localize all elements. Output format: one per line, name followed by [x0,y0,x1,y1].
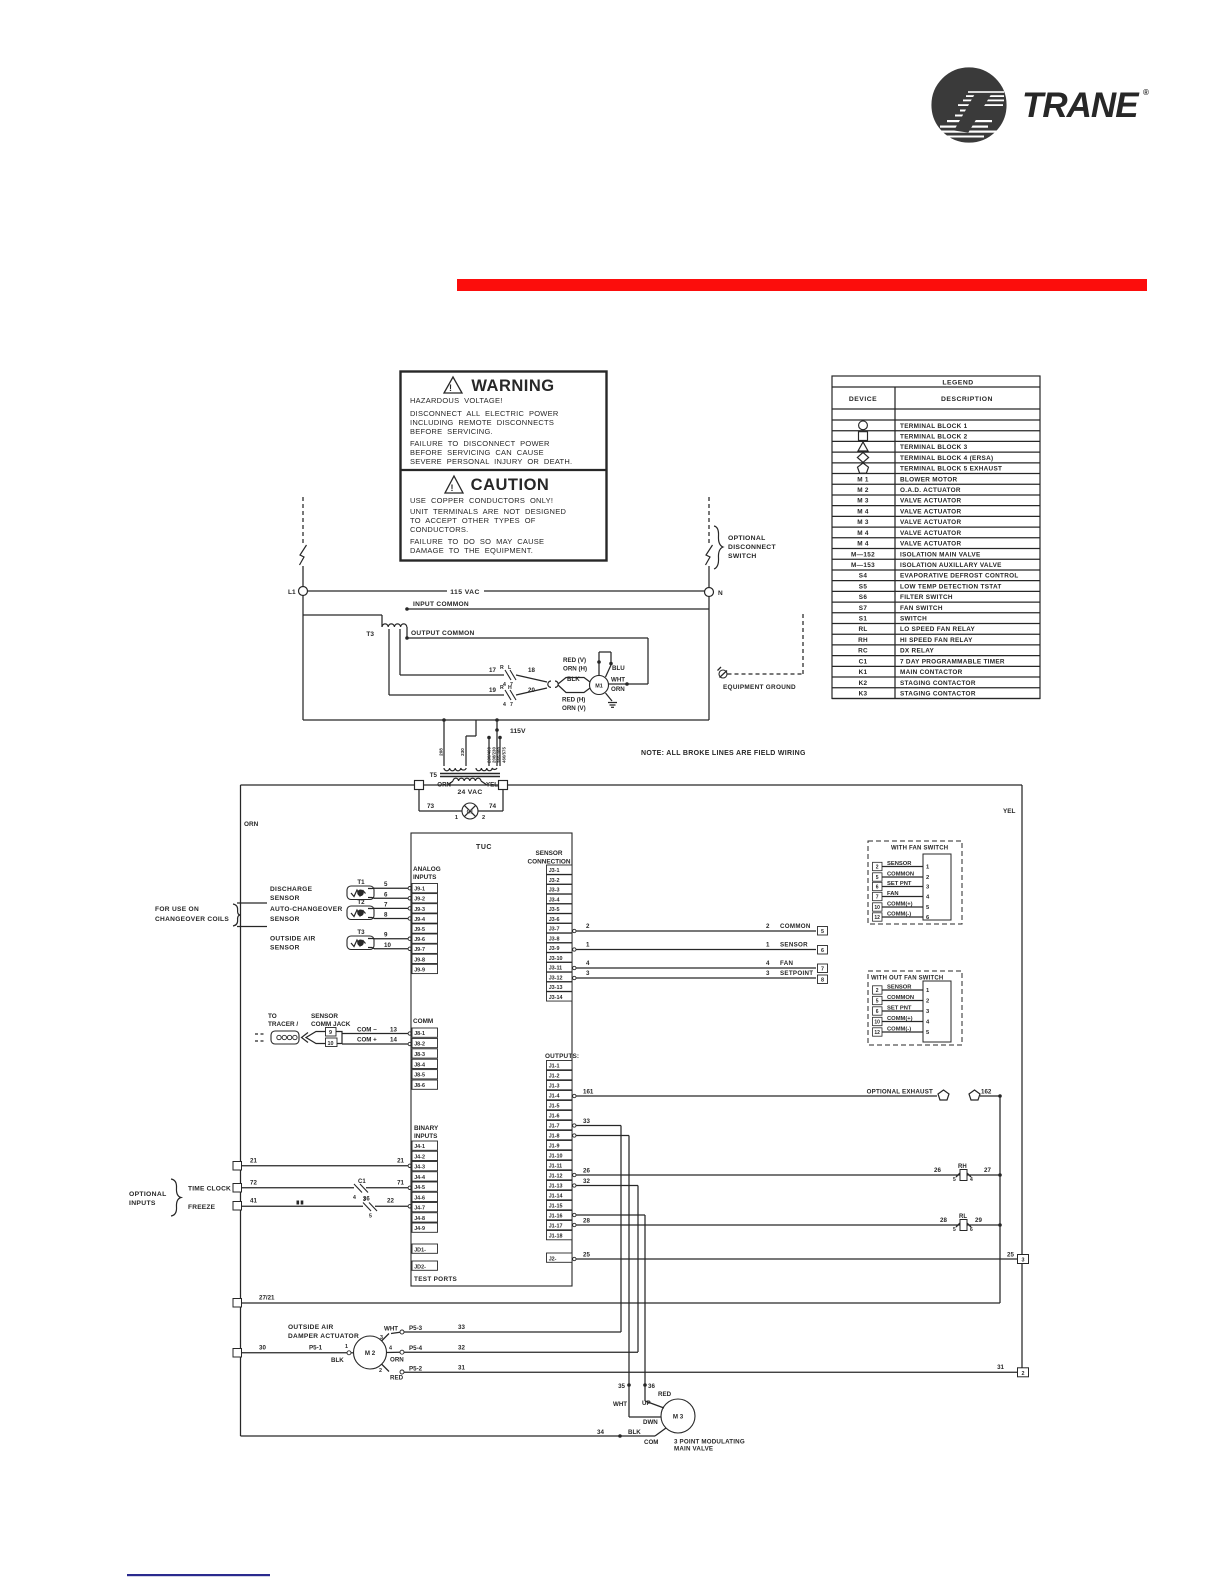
svg-text:P5-2: P5-2 [409,1365,423,1372]
svg-text:6: 6 [876,1009,879,1015]
svg-text:3: 3 [380,1335,383,1341]
svg-text:32: 32 [583,1178,590,1185]
terminal block 7 on FAN wire [818,964,828,973]
svg-text:EQUIPMENT GROUND: EQUIPMENT GROUND [723,684,796,691]
wires T1 to analog inputs [374,881,411,900]
wire 25 from J2 to terminal 3 [573,1252,1018,1261]
svg-text:32: 32 [458,1345,465,1352]
temperature sensor T3 [347,929,375,950]
svg-text:J3-5: J3-5 [549,907,560,913]
svg-text:L1: L1 [288,589,296,596]
wire 30 to damper motor [242,1344,354,1364]
contact R-H 19/20 [489,685,547,708]
svg-text:M 2: M 2 [857,487,869,494]
svg-text:5: 5 [821,929,824,935]
svg-text:M 3: M 3 [673,1414,684,1421]
svg-text:FAILURE TO DO SO MAY CAUSE: FAILURE TO DO SO MAY CAUSE [410,537,544,546]
valve label [674,1439,745,1453]
wire 28 from J1-17 to RL relay [573,1217,960,1227]
svg-text:STAGING CONTACTOR: STAGING CONTACTOR [900,680,976,687]
M1 right lead WHT ORN [609,677,629,694]
svg-text:28: 28 [583,1218,590,1225]
terminal block 6 on SENSOR wire [818,946,828,955]
svg-text:5: 5 [369,1214,372,1220]
terminal block 5 pentagon right [969,1090,980,1100]
svg-text:J4-6: J4-6 [414,1195,425,1201]
svg-text:WITH FAN SWITCH: WITH FAN SWITCH [891,846,948,852]
svg-text:FREEZE: FREEZE [188,1204,216,1211]
Trane logo wordmark [1022,86,1149,125]
svg-text:J3-9: J3-9 [549,946,560,952]
temperature sensor T1 [347,879,375,900]
svg-text:RH: RH [858,637,868,644]
svg-text:J1-10: J1-10 [549,1154,563,1160]
terminal column J8 comm [412,1028,438,1089]
svg-text:JD1-: JD1- [414,1247,426,1253]
svg-text:BLK: BLK [628,1429,641,1436]
svg-text:FAN SWITCH: FAN SWITCH [900,605,943,612]
svg-text:COMM(+): COMM(+) [887,1016,913,1022]
wire 27 RH to bus [967,1167,1002,1177]
M2 pin3 WHT wire 33 [380,1324,621,1341]
svg-text:J1-6: J1-6 [549,1114,560,1120]
svg-text:31: 31 [458,1365,465,1372]
svg-text:8: 8 [821,978,824,984]
svg-text:J1-4: J1-4 [549,1094,560,1100]
terminal 2 right side [1018,1368,1029,1377]
svg-text:JD2-: JD2- [414,1264,426,1270]
svg-text:J8-5: J8-5 [414,1073,425,1079]
wire 32 from J1-13 [573,1178,638,1352]
wire 22 to J4-7 [375,1198,411,1209]
svg-text:C1: C1 [358,1179,366,1185]
svg-text:COMM(-): COMM(-) [887,1027,911,1033]
outside air damper actuator label [288,1324,359,1340]
svg-text:SWITCH: SWITCH [900,616,927,623]
modulating valve motor M3 [661,1399,695,1433]
svg-text:J9-8: J9-8 [414,957,425,963]
svg-text:VALVE ACTUATOR: VALVE ACTUATOR [900,508,961,515]
wire COMMON from J3 [573,923,816,933]
svg-text:R: R [500,685,504,691]
svg-text:4: 4 [389,1346,392,1352]
svg-text:SEVERE PERSONAL INJURY OR DEAT: SEVERE PERSONAL INJURY OR DEATH. [410,457,572,466]
svg-text:COM +: COM + [357,1037,377,1044]
svg-text:J8-4: J8-4 [414,1062,425,1068]
svg-text:6: 6 [384,891,388,898]
wire from J1-16 to valve UP [573,1213,645,1385]
svg-text:R: R [500,665,504,671]
svg-text:J4-4: J4-4 [414,1175,425,1181]
svg-text:2: 2 [766,923,770,930]
svg-text:ANALOG: ANALOG [413,866,441,873]
svg-text:5: 5 [384,881,388,888]
svg-text:9: 9 [329,1030,332,1036]
svg-text:29: 29 [975,1217,982,1224]
svg-text:J1-13: J1-13 [549,1184,563,1190]
svg-text:J3-6: J3-6 [549,917,560,923]
svg-text:J1-14: J1-14 [549,1194,563,1200]
svg-text:J4-8: J4-8 [414,1216,425,1222]
svg-text:COMMON: COMMON [887,872,914,878]
transformer T3 autotransformer coil [366,624,407,638]
svg-text:DISCONNECT: DISCONNECT [728,544,776,551]
svg-text:N: N [718,590,723,597]
svg-text:36: 36 [363,1197,370,1203]
svg-text:6: 6 [876,885,879,891]
wire WHT to valve DWN [613,1385,662,1426]
footer rule [127,1574,270,1576]
svg-text:J1-5: J1-5 [549,1104,560,1110]
svg-text:TEST PORTS: TEST PORTS [414,1276,458,1283]
relay RH coil [953,1164,973,1183]
svg-text:18: 18 [528,667,535,674]
svg-text:5: 5 [953,1177,956,1183]
svg-text:7: 7 [821,967,824,973]
svg-text:36: 36 [648,1383,655,1390]
svg-text:2: 2 [926,999,929,1005]
wire SENSOR from J3 [573,942,816,952]
svg-text:J1-18: J1-18 [549,1234,563,1240]
svg-text:162: 162 [981,1089,992,1096]
svg-text:K3: K3 [859,691,868,698]
svg-text:DISCHARGE: DISCHARGE [270,886,313,893]
svg-text:J9-6: J9-6 [414,937,425,943]
svg-text:10: 10 [384,942,391,949]
svg-text:DAMAGE TO THE EQUIPMENT.: DAMAGE TO THE EQUIPMENT. [410,546,533,555]
svg-text:J9-5: J9-5 [414,927,425,933]
svg-text:M 4: M 4 [857,530,869,537]
svg-text:J1-1: J1-1 [549,1064,560,1070]
legend table [832,376,1040,699]
svg-text:P5-3: P5-3 [409,1325,423,1332]
svg-text:33: 33 [583,1118,590,1125]
svg-text:INPUTS: INPUTS [129,1200,156,1207]
svg-text:J1-9: J1-9 [549,1144,560,1150]
svg-text:230: 230 [460,748,465,756]
svg-text:SENSOR: SENSOR [887,861,912,867]
svg-text:WARNING: WARNING [471,377,554,395]
svg-text:SWITCH: SWITCH [728,553,757,560]
svg-text:73: 73 [427,803,435,810]
svg-text:2: 2 [926,875,929,881]
svg-text:J3-12: J3-12 [549,975,563,981]
svg-text:BEFORE SERVICING.: BEFORE SERVICING. [410,427,493,436]
svg-text:J1-15: J1-15 [549,1204,563,1210]
svg-text:21: 21 [397,1158,404,1165]
wire from J1-8 to valve WHT [573,1134,629,1385]
svg-text:SENSOR: SENSOR [311,1013,338,1020]
svg-text:27/21: 27/21 [259,1295,275,1302]
contact R-L 17/18 [489,665,547,688]
svg-text:115V: 115V [510,728,526,735]
svg-text:14: 14 [390,1037,397,1044]
wires T2 to analog inputs [374,901,411,920]
svg-text:SENSOR: SENSOR [270,895,300,902]
svg-text:TRACER /: TRACER / [268,1021,298,1028]
Trane logo circle [932,68,1006,142]
svg-text:TERMINAL BLOCK 2: TERMINAL BLOCK 2 [900,433,968,440]
svg-text:J3-1: J3-1 [549,868,560,874]
svg-text:13: 13 [390,1027,397,1034]
transformer T5 primary coil [444,768,497,771]
svg-text:FILTER SWITCH: FILTER SWITCH [900,594,953,601]
svg-text:71: 71 [397,1180,404,1187]
svg-text:DWN: DWN [643,1419,658,1426]
wire L1 down leg [302,596,304,721]
svg-text:TO ACCEPT OTHER TYPES OF: TO ACCEPT OTHER TYPES OF [410,516,536,525]
svg-text:COM: COM [644,1439,658,1446]
svg-text:COMMON: COMMON [780,923,811,930]
svg-text:J3-2: J3-2 [549,878,560,884]
discharge sensor label [270,886,313,902]
svg-text:INPUT COMMON: INPUT COMMON [413,601,469,608]
svg-text:J9-1: J9-1 [414,887,425,893]
wire 41 with splice [242,1198,364,1207]
svg-text:J3-4: J3-4 [549,897,560,903]
svg-text:COMM(-): COMM(-) [887,912,911,918]
wire 33 from J1-7 [573,1118,621,1332]
svg-text:J9-3: J9-3 [414,907,425,913]
wire 21 to J4-3 [242,1158,412,1168]
svg-text:DAMPER ACTUATOR: DAMPER ACTUATOR [288,1333,359,1340]
svg-text:10: 10 [874,905,880,911]
svg-text:2: 2 [876,865,879,871]
timer C1 [455,803,485,821]
svg-text:4: 4 [586,960,590,967]
svg-text:5: 5 [876,999,879,1005]
svg-text:208: 208 [439,748,444,756]
svg-text:P5-1: P5-1 [309,1345,323,1352]
svg-text:J4-9: J4-9 [414,1226,425,1232]
optional disconnect switch label [714,526,776,569]
svg-text:J9-9: J9-9 [414,967,425,973]
svg-text:17: 17 [489,667,496,674]
svg-text:SENSOR: SENSOR [887,985,912,991]
svg-text:2: 2 [876,988,879,994]
svg-text:C1: C1 [467,810,474,816]
svg-text:WHT: WHT [611,677,625,684]
svg-text:12: 12 [874,915,880,921]
svg-text:EVAPORATIVE DEFROST CONTROL: EVAPORATIVE DEFROST CONTROL [900,573,1019,580]
svg-text:J1-11: J1-11 [549,1164,563,1170]
warning triangle symbol [444,377,462,393]
svg-text:25: 25 [1007,1252,1014,1259]
svg-text:J4-3: J4-3 [414,1165,425,1171]
svg-text:J9-2: J9-2 [414,897,425,903]
svg-text:74: 74 [489,803,497,810]
svg-text:8: 8 [384,912,388,919]
svg-text:2: 2 [482,815,485,821]
svg-text:SETPOINT: SETPOINT [780,970,813,977]
svg-text:26: 26 [934,1167,941,1174]
svg-text:K1: K1 [859,669,868,676]
svg-text:S1: S1 [859,616,868,623]
svg-text:RED: RED [390,1375,404,1382]
svg-text:VALVE ACTUATOR: VALVE ACTUATOR [900,541,961,548]
svg-text:LEGEND: LEGEND [942,380,973,387]
svg-text:J9-4: J9-4 [414,917,425,923]
svg-text:J1-2: J1-2 [549,1074,560,1080]
svg-text:4: 4 [766,960,770,967]
with fan switch unit box [868,841,962,924]
svg-text:CAUTION: CAUTION [471,476,550,494]
tracer comm jack labels [268,1013,351,1028]
svg-text:161: 161 [583,1089,594,1096]
svg-text:OPTIONAL: OPTIONAL [129,1191,167,1198]
plug connector pair [548,681,558,687]
svg-text:COM −: COM − [357,1027,377,1034]
svg-text:J1-17: J1-17 [549,1224,563,1230]
svg-text:2: 2 [1022,1371,1025,1377]
svg-text:4: 4 [353,1195,356,1201]
M2 pin4 ORN wire 32 [387,1345,639,1364]
svg-text:J3-11: J3-11 [549,966,563,972]
wire YEL right leg [1003,785,1022,1373]
svg-text:TERMINAL BLOCK 3: TERMINAL BLOCK 3 [900,444,968,451]
svg-text:7: 7 [510,702,513,708]
svg-text:M1: M1 [595,684,603,690]
terminal block secondary 2 [499,781,508,790]
svg-text:J3-13: J3-13 [549,985,563,991]
wire COM plus 14 [342,1037,411,1046]
svg-text:J2-: J2- [549,1256,557,1262]
svg-text:ORN: ORN [244,821,259,828]
svg-text:RC: RC [858,648,868,655]
svg-text:C1: C1 [859,658,868,665]
svg-text:J4-2: J4-2 [414,1154,425,1160]
svg-text:2: 2 [379,1368,382,1374]
svg-text:CONDUCTORS.: CONDUCTORS. [410,525,468,534]
wire 72 to timer contact C1 [242,1180,355,1188]
svg-text:VALVE ACTUATOR: VALVE ACTUATOR [900,498,961,505]
svg-text:ISOLATION MAIN VALVE: ISOLATION MAIN VALVE [900,551,981,558]
svg-text:J8-3: J8-3 [414,1052,425,1058]
svg-text:STAGING CONTACTOR: STAGING CONTACTOR [900,691,976,698]
svg-text:SENSOR: SENSOR [270,916,300,923]
terminal block 8 on SETPOINT wire [818,975,828,984]
wire L1 branch to T3 [303,615,382,627]
svg-text:COMM(+): COMM(+) [887,902,913,908]
svg-text:J8-2: J8-2 [414,1042,425,1048]
svg-text:INPUTS: INPUTS [413,874,437,881]
svg-text:J3-10: J3-10 [549,956,563,962]
wire 161 optional exhaust 162 [573,1089,937,1098]
svg-text:ORN (V): ORN (V) [562,705,586,712]
svg-text:TO: TO [268,1013,277,1020]
binary inputs header [414,1125,439,1140]
svg-text:10: 10 [874,1020,880,1026]
svg-text:INPUTS: INPUTS [414,1133,438,1140]
T5 primary tap labels [439,747,507,763]
svg-text:T2: T2 [357,899,365,906]
wire 26 from J1-12 to RH relay [573,1167,960,1177]
test port JD1 [412,1244,438,1253]
svg-text:S7: S7 [859,605,868,612]
optional disconnect switch dashed line N side [706,497,713,587]
svg-text:6: 6 [970,1227,973,1233]
svg-text:HI SPEED FAN RELAY: HI SPEED FAN RELAY [900,637,973,644]
svg-text:28: 28 [940,1217,947,1224]
svg-text:MAIN CONTACTOR: MAIN CONTACTOR [900,669,963,676]
svg-text:J1-3: J1-3 [549,1084,560,1090]
svg-text:BLU: BLU [612,665,625,672]
BLK lead bundle to M1 [558,676,590,693]
optional disconnect switch dashed line L1 side [300,497,307,587]
svg-text:CONNECTION: CONNECTION [528,859,571,866]
svg-text:T5: T5 [430,772,438,779]
svg-text:J1-7: J1-7 [549,1124,560,1130]
analog inputs header [413,866,441,881]
transformer T5 secondary coil 24VAC [437,778,498,796]
terminal L1 [288,587,308,597]
svg-text:J4-7: J4-7 [414,1206,425,1212]
svg-text:30: 30 [259,1345,266,1352]
svg-text:J4-1: J4-1 [414,1144,425,1150]
optional inputs label [129,1179,181,1216]
terminal J2 [547,1253,573,1262]
svg-text:J3-7: J3-7 [549,927,560,933]
terminal for wire 21 [233,1162,242,1171]
svg-text:OPTIONAL: OPTIONAL [728,535,766,542]
svg-text:T1: T1 [357,879,365,886]
svg-text:CHANGEOVER COILS: CHANGEOVER COILS [155,916,229,923]
timer C1 loop [419,790,503,812]
wire 162 to bus [980,1089,1002,1098]
svg-text:TERMINAL BLOCK 5 EXHAUST: TERMINAL BLOCK 5 EXHAUST [900,466,1002,473]
wire FAN from J3 [573,960,816,970]
wire 34 BLK COM [241,1428,667,1446]
transformer T5 core [430,772,500,779]
svg-text:WHT: WHT [384,1326,398,1333]
svg-text:3 POINT MODULATING: 3 POINT MODULATING [674,1439,745,1446]
caution title and text [410,476,566,555]
svg-text:4: 4 [503,702,506,708]
terminal block secondary 1 [415,781,424,790]
svg-text:VALVE ACTUATOR: VALVE ACTUATOR [900,530,961,537]
TUC controller box [411,833,572,1286]
auto-changeover sensor label [270,906,343,923]
wire ORN left leg [241,785,259,1436]
svg-text:22: 22 [387,1198,394,1205]
svg-text:LOW TEMP DETECTION TSTAT: LOW TEMP DETECTION TSTAT [900,583,1002,590]
svg-text:9: 9 [384,932,388,939]
wire 27/21 bottom bus [242,1295,1001,1304]
svg-text:T3: T3 [366,631,374,638]
wire N to input common and 115VAC return [708,597,710,721]
terminal N [705,588,724,598]
svg-text:26: 26 [583,1168,590,1175]
svg-text:10: 10 [328,1041,334,1047]
svg-text:27: 27 [984,1167,991,1174]
svg-text:J8-1: J8-1 [414,1031,425,1037]
svg-text:3: 3 [1022,1258,1025,1264]
temperature sensor T2 [347,899,375,920]
red divider bar [457,279,1147,291]
svg-text:HAZARDOUS VOLTAGE!: HAZARDOUS VOLTAGE! [410,396,503,405]
svg-text:SENSOR: SENSOR [780,942,808,949]
test port JD2 [412,1261,438,1270]
svg-text:AUTO-CHANGEOVER: AUTO-CHANGEOVER [270,906,343,913]
terminal 1 on ORN leg [233,1299,242,1308]
equipment ground symbol [718,667,797,691]
changeover coil pointer wires [237,903,267,927]
wire 115 VAC [308,589,705,596]
svg-text:5: 5 [953,1227,956,1233]
svg-text:FOR USE ON: FOR USE ON [155,906,199,913]
svg-text:7 DAY PROGRAMMABLE TIMER: 7 DAY PROGRAMMABLE TIMER [900,658,1005,665]
svg-text:SET PNT: SET PNT [887,881,912,887]
